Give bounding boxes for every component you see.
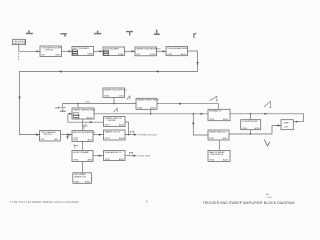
svg-text:B180: B180	[119, 138, 125, 140]
svg-text:A190: A190	[88, 159, 94, 162]
svg-text:V173: V173	[105, 125, 111, 127]
svg-text:REGULATOR: REGULATOR	[211, 153, 224, 156]
svg-text:R240: R240	[209, 160, 215, 162]
svg-text:CIRCUIT: CIRCUIT	[44, 134, 53, 136]
svg-text:A145: A145	[87, 116, 93, 119]
svg-text:SWEEP HOLDOFF CKT: SWEEP HOLDOFF CKT	[104, 89, 127, 91]
svg-text:TO HORIZ PLUG-IN: TO HORIZ PLUG-IN	[138, 135, 157, 137]
svg-text:HORIZ PREAMP: HORIZ PREAMP	[73, 151, 89, 154]
svg-text:2-1-66: 2-1-66	[266, 197, 273, 199]
svg-text:TYPE 561A LETTERED-SERIES OSCI: TYPE 561A LETTERED-SERIES OSCILLOSCOPES	[10, 201, 79, 204]
svg-text:CRT: CRT	[284, 127, 289, 129]
svg-text:TO CRT GRID: TO CRT GRID	[137, 156, 151, 158]
svg-text:V214: V214	[209, 119, 215, 121]
svg-text:A160: A160	[181, 53, 187, 56]
svg-text:A245: A245	[223, 159, 229, 162]
svg-text:B,V50: B,V50	[150, 54, 157, 56]
svg-text:B220: B220	[223, 119, 229, 121]
svg-text:V33A: V33A	[88, 53, 94, 56]
svg-text:A235: A235	[255, 127, 261, 130]
svg-text:R220: R220	[209, 138, 215, 140]
svg-text:R180: R180	[74, 182, 80, 184]
svg-text:INT TRIG AMPL: INT TRIG AMPL	[104, 47, 120, 50]
svg-text:SWEEP MAG ADJ: SWEEP MAG ADJ	[209, 130, 226, 133]
svg-text:V33B: V33B	[118, 54, 124, 56]
svg-text:SWP: SWP	[284, 122, 289, 124]
svg-text:A195: A195	[119, 158, 125, 161]
svg-text:2X MULTIPLIER: 2X MULTIPLIER	[242, 121, 258, 123]
svg-text:EXT TRIG AMPL: EXT TRIG AMPL	[73, 47, 89, 50]
svg-text:V161: V161	[104, 96, 110, 98]
svg-text:GENER CKT: GENER CKT	[74, 176, 87, 178]
svg-text:A180: A180	[119, 124, 125, 127]
svg-text:R230: R230	[242, 128, 248, 130]
svg-text:SWEEP TRIGGER MULTI: SWEEP TRIGGER MULTI	[136, 48, 161, 50]
svg-text:SWEEP OUT CF: SWEEP OUT CF	[105, 131, 121, 133]
svg-text:LIMITER: LIMITER	[108, 120, 117, 122]
svg-text:V183: V183	[73, 160, 79, 162]
svg-text:V135B: V135B	[73, 117, 80, 119]
svg-text:B170: B170	[73, 140, 79, 142]
svg-text:V145: V145	[137, 108, 143, 110]
svg-text:V193: V193	[105, 159, 111, 161]
svg-text:SWEEP RESET MULTI: SWEEP RESET MULTI	[137, 100, 159, 102]
svg-text:SWEEP GATING MULT: SWEEP GATING MULT	[73, 108, 96, 111]
svg-text:B160: B160	[151, 108, 157, 110]
svg-text:V135: V135	[167, 54, 173, 56]
svg-text:TRIGGER AMPLIFIER: TRIGGER AMPLIFIER	[167, 47, 188, 50]
svg-text:A175: A175	[88, 139, 94, 142]
svg-text:MILLER INTEGRATOR: MILLER INTEGRATOR	[73, 131, 95, 134]
svg-text:UNBLANKING CF: UNBLANKING CF	[105, 151, 123, 154]
svg-text:CIRCUIT: CIRCUIT	[45, 50, 54, 52]
svg-text:C160: C160	[85, 101, 90, 103]
svg-text:SELECTOR: SELECTOR	[13, 43, 26, 45]
svg-text:TRIGGER AND SWEEP AMPLIFIER BL: TRIGGER AND SWEEP AMPLIFIER BLOCK DIAGRA…	[203, 201, 295, 205]
svg-text:NORMAL CF: NORMAL CF	[209, 110, 222, 113]
svg-text:C160: C160	[119, 96, 125, 98]
svg-text:B150: B150	[56, 55, 62, 57]
svg-text:B185: B185	[85, 182, 91, 184]
svg-text:AB: AB	[265, 193, 269, 196]
svg-text:V173: V173	[105, 138, 111, 140]
svg-text:A225: A225	[223, 137, 229, 140]
